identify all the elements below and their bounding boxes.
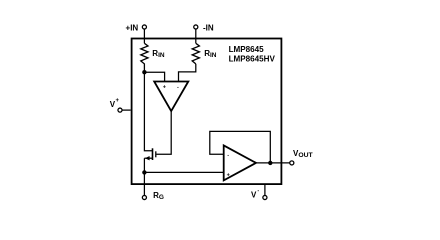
node A junction dot (RIN left / source) <box>142 70 146 74</box>
wire node A to transistor source <box>144 72 152 151</box>
terminal RG <box>142 195 146 199</box>
op-amp gm stage U1 <box>154 82 188 112</box>
wire -IN to RIN right <box>195 29 197 43</box>
wire V- pin <box>264 184 266 195</box>
label LMP8645 / LMP8645HV <box>229 45 276 63</box>
svg-text:V+: V+ <box>110 98 120 109</box>
svg-text:-: - <box>227 153 229 159</box>
wire Q1 drain to node B <box>143 158 145 172</box>
wire feedback loop <box>210 131 270 163</box>
node C junction dot (output) <box>268 161 272 165</box>
svg-text:+IN: +IN <box>126 23 139 32</box>
svg-text:RG: RG <box>153 191 164 201</box>
terminal V+ <box>118 108 122 112</box>
node B junction dot (RG node) <box>142 170 146 174</box>
svg-text:RIN: RIN <box>152 49 165 59</box>
wire +IN to RIN left <box>143 29 145 43</box>
IC outline box LMP8645 <box>132 39 282 185</box>
wire buffer output to VOUT <box>256 162 290 164</box>
svg-text:V-: V- <box>251 188 259 200</box>
resistor RIN (right) <box>192 43 199 64</box>
svg-text:-: - <box>177 84 179 90</box>
svg-text:+: + <box>227 173 230 179</box>
terminal +IN <box>142 25 146 29</box>
terminal -IN <box>194 25 198 29</box>
resistor RIN (left) <box>141 43 148 72</box>
svg-text:RIN: RIN <box>204 49 217 59</box>
wire RIN right to gm minus input <box>179 64 196 82</box>
svg-text:VOUT: VOUT <box>293 149 314 159</box>
svg-text:+: + <box>163 85 166 91</box>
svg-text:LMP8645HV: LMP8645HV <box>229 55 276 64</box>
wire V+ to box <box>122 109 131 111</box>
wire node A to gm plus input <box>144 72 164 81</box>
svg-text:LMP8645: LMP8645 <box>229 45 265 54</box>
terminal V- <box>263 195 267 199</box>
svg-text:-IN: -IN <box>203 23 214 32</box>
terminal VOUT <box>290 161 294 165</box>
transistor Q1 (PMOS) <box>144 148 155 160</box>
op-amp buffer A1 <box>224 145 256 180</box>
wire node B to RG pin <box>143 172 145 195</box>
wire node B to buffer plus input <box>144 171 223 173</box>
wire gm output to gate of Q1 <box>156 111 171 154</box>
